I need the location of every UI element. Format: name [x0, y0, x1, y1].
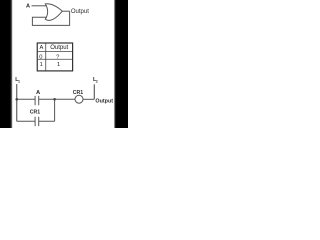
- coil CR1 circle: [75, 95, 83, 103]
- branch bottom wire left: [17, 120, 35, 122]
- wire from A to gate top input: [32, 5, 47, 7]
- right black band: [114, 0, 116, 128]
- rung wire: contact A to coil: [39, 98, 75, 100]
- svg-text:1: 1: [18, 80, 20, 84]
- table row line 2: [37, 58, 72, 60]
- svg-text:Output: Output: [71, 9, 89, 15]
- contact CR1 bar right: [38, 117, 40, 126]
- branch bottom wire right: [39, 120, 55, 122]
- svg-text:Output: Output: [50, 45, 68, 51]
- contact A bar right: [38, 96, 40, 105]
- feedback wire loop: [32, 11, 69, 25]
- right rail L2: [93, 84, 95, 99]
- svg-text:2: 2: [96, 80, 98, 84]
- left black band: [0, 0, 11, 128]
- contact A bar left: [34, 96, 36, 105]
- or-gate: [45, 4, 62, 21]
- page background: [0, 0, 128, 128]
- svg-text:CR1: CR1: [73, 90, 83, 96]
- rung wire: rail to contact A: [17, 98, 35, 100]
- output wire from gate tip: [62, 10, 69, 12]
- svg-text:0: 0: [39, 54, 42, 60]
- svg-text:CR1: CR1: [30, 110, 40, 116]
- svg-text:A: A: [26, 3, 30, 9]
- left rail L1: [16, 84, 18, 121]
- contact CR1 bar left: [34, 117, 36, 126]
- svg-text:Output: Output: [95, 98, 113, 104]
- table outer border: [37, 43, 72, 71]
- table column line: [45, 43, 47, 71]
- table row line 1: [37, 51, 72, 53]
- junction dot right: [53, 98, 56, 101]
- svg-text:1: 1: [40, 62, 43, 68]
- svg-text:A: A: [39, 45, 43, 51]
- wire coil to right rail: [83, 98, 94, 100]
- svg-text:1: 1: [57, 62, 60, 68]
- branch vertical right: [54, 99, 56, 121]
- junction dot left: [15, 98, 18, 101]
